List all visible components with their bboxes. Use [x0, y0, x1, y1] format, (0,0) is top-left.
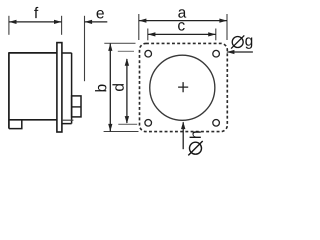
extension line a left: [138, 14, 140, 40]
extension line a right: [226, 14, 228, 40]
extension line b top: [104, 42, 135, 44]
label h: [190, 131, 201, 138]
mounting flange (side view): [57, 43, 62, 132]
collar groove line: [62, 119, 74, 121]
body foot step (bottom-left): [9, 120, 22, 129]
label e: [97, 10, 104, 18]
leader line for g hole: [227, 50, 253, 54]
rear box divider: [72, 106, 81, 108]
corner hole bottom-left: [145, 120, 152, 127]
flange plate (front view, dashed): [140, 43, 228, 131]
label c: [178, 22, 185, 30]
rear box (side view): [72, 96, 81, 117]
center cross: [178, 82, 188, 92]
extension line f left: [8, 16, 10, 35]
collar (side view): [62, 53, 72, 124]
extension line c right: [215, 29, 217, 41]
dimension b: [108, 43, 112, 131]
label d: [112, 84, 123, 91]
dimension d: [125, 58, 129, 123]
label f: [34, 7, 38, 18]
label g: [245, 37, 252, 49]
extension line e: [84, 16, 86, 81]
diameter symbol bottom: [188, 141, 202, 155]
extension line d top: [118, 50, 134, 52]
corner hole top-right: [213, 50, 220, 57]
extension line f right: [61, 16, 63, 35]
dimension e arrow: [85, 20, 108, 24]
dimension a: [139, 19, 227, 23]
connector body (side view): [9, 52, 57, 128]
corner hole bottom-right: [213, 120, 220, 127]
extension line b bottom: [104, 131, 139, 133]
extension line d bottom: [118, 123, 137, 125]
corner hole top-left: [145, 50, 152, 57]
extension line c left: [147, 29, 149, 41]
center circle (front view): [150, 55, 215, 120]
label a: [178, 9, 186, 17]
diameter symbol for g: [231, 35, 244, 48]
label b: [95, 85, 106, 92]
dimension c: [148, 32, 216, 36]
dimension f: [9, 20, 62, 24]
leader line for center hole diameter: [181, 122, 185, 150]
